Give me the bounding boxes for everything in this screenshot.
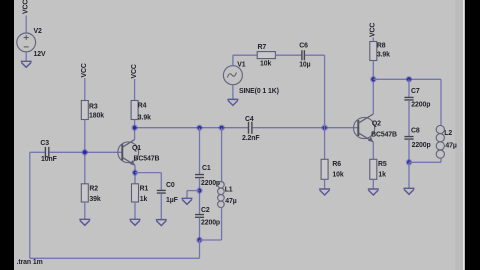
svg-text:L2: L2 — [444, 130, 452, 137]
wire C1 to C2 — [199, 178, 201, 215]
wire input loop down left side — [29, 152, 31, 258]
wire tank bottom to feedback rail — [199, 240, 201, 258]
net VCC flag at V2 — [23, 0, 30, 14]
svg-text:BC547B: BC547B — [134, 155, 160, 162]
wire Q2 emitter down — [372, 142, 374, 159]
svg-text:2200p: 2200p — [412, 142, 431, 149]
junction tank C1 node — [196, 125, 202, 131]
wire R5 to ground — [372, 179, 374, 189]
junction Q2 collector node — [370, 76, 377, 83]
wire R2 to ground — [84, 202, 86, 219]
voltage source V2 — [17, 33, 36, 52]
junction collector R4 node — [131, 125, 137, 131]
wire input left corner to C3 — [30, 151, 45, 153]
svg-text:2.2nF: 2.2nF — [242, 135, 260, 142]
junction tank L1 node — [218, 125, 224, 131]
wire C3 to Q1 base — [49, 151, 122, 153]
inductor L2 — [436, 125, 444, 158]
svg-text:1k: 1k — [378, 172, 386, 179]
svg-text:R3: R3 — [89, 104, 98, 111]
svg-text:R6: R6 — [332, 161, 341, 168]
ground at C1 C2 midpoint — [182, 198, 193, 204]
capacitor C8 — [404, 137, 413, 140]
wire rail to R6 — [324, 128, 326, 160]
svg-text:V1: V1 — [237, 61, 245, 68]
capacitor C0 — [157, 190, 166, 193]
svg-text:C1: C1 — [202, 165, 211, 172]
wire L1 top lead — [221, 128, 223, 182]
svg-text:39k: 39k — [89, 196, 100, 203]
wire C0 top lead — [160, 173, 162, 191]
svg-text:VCC: VCC — [370, 23, 377, 37]
junction C7 node — [406, 76, 413, 83]
wire VCC to R3 — [84, 78, 86, 101]
svg-text:C8: C8 — [411, 128, 420, 135]
svg-text:C3: C3 — [40, 140, 49, 147]
wire Q1 collector rail — [135, 127, 249, 129]
svg-text:R2: R2 — [89, 186, 98, 193]
wire C8 bottom lead — [408, 139, 410, 162]
wire R6 to ground — [324, 179, 326, 189]
transistor Q2 — [354, 114, 375, 142]
left black border bar — [0, 0, 14, 270]
svg-text:R5: R5 — [378, 161, 387, 168]
junction C1 C2 midpoint — [196, 187, 202, 193]
wire C2 bottom lead — [199, 218, 201, 241]
wire C4 to Q2 base — [252, 127, 358, 129]
wire R1 to ground — [134, 202, 136, 219]
svg-text:R1: R1 — [140, 186, 149, 193]
resistor R7 — [257, 52, 275, 59]
capacitor C6 — [302, 50, 305, 60]
ground below R6 — [319, 189, 330, 195]
svg-text:C4: C4 — [245, 116, 254, 123]
wire V1 bottom to ground — [232, 85, 234, 100]
wire output rail — [373, 78, 441, 80]
svg-text:Q2: Q2 — [372, 121, 381, 128]
capacitor C7 — [404, 97, 413, 100]
svg-text:C7: C7 — [411, 88, 420, 95]
wire R3 to R2 through base node — [84, 120, 86, 184]
svg-text:2200p: 2200p — [411, 102, 430, 109]
svg-text:SINE(0 1 1K): SINE(0 1 1K) — [239, 88, 279, 95]
wire C7 to C8 — [408, 100, 410, 136]
svg-text:C6: C6 — [299, 43, 308, 50]
svg-text:3.9k: 3.9k — [377, 51, 390, 58]
svg-text:VCC: VCC — [81, 63, 88, 77]
wire V1 to R7 — [233, 54, 257, 56]
capacitor C3 — [45, 147, 48, 158]
wire Q2 collector riser — [372, 79, 374, 114]
wire C7 top lead — [408, 79, 410, 97]
net VCC flag at R3 — [81, 63, 88, 77]
net VCC flag at R8 — [370, 23, 377, 37]
svg-text:10k: 10k — [260, 61, 271, 68]
svg-text:2200p: 2200p — [201, 220, 220, 227]
svg-text:VCC: VCC — [131, 64, 138, 78]
wire bottom feedback rail — [30, 257, 200, 259]
svg-text:47µ: 47µ — [445, 143, 456, 150]
wire VCC to R8 — [372, 38, 374, 42]
svg-text:1µF: 1µF — [166, 197, 178, 204]
junction tank bottom node — [196, 237, 203, 244]
capacitor C1 — [195, 175, 204, 178]
svg-text:R8: R8 — [377, 42, 386, 49]
transistor Q1 — [118, 140, 139, 166]
ground below output tank — [404, 188, 415, 194]
wire L2 bottom lead — [440, 158, 442, 162]
resistor R5 — [370, 159, 377, 179]
wire L2 to output node — [409, 161, 441, 163]
svg-text:12V: 12V — [34, 51, 46, 58]
svg-text:R4: R4 — [138, 103, 147, 110]
junction output tank bottom — [406, 159, 413, 166]
ground below R1 — [130, 219, 141, 225]
right window edge shading strip — [455, 0, 463, 270]
resistor R4 — [131, 101, 138, 120]
right black border bar — [465, 0, 480, 270]
wire Q1 emitter down — [134, 165, 136, 184]
wire C0 to ground — [160, 193, 162, 219]
wire R8 to collector node — [372, 61, 374, 80]
svg-text:C0: C0 — [166, 182, 175, 189]
right white edge highlight — [463, 0, 465, 270]
wire emitter to C0 — [135, 172, 161, 174]
junction base divider node — [82, 149, 89, 156]
svg-text:1k: 1k — [140, 196, 148, 203]
wire V1 top lead — [232, 55, 234, 65]
wire corner down to rail — [324, 55, 326, 128]
svg-text:.tran 1m: .tran 1m — [17, 259, 43, 266]
svg-text:C2: C2 — [201, 207, 210, 214]
svg-text:L1: L1 — [225, 186, 233, 193]
capacitor C4 — [249, 122, 252, 134]
wire midpoint ground stem — [186, 191, 188, 199]
ground below V2 — [21, 61, 32, 67]
inductor L1 — [218, 182, 225, 208]
svg-text:10k: 10k — [332, 172, 343, 179]
wire C1 top lead — [199, 128, 201, 175]
wire R4 to Q1 collector — [134, 120, 136, 140]
resistor R1 — [132, 184, 139, 202]
wire VCC to V2 top — [25, 16, 27, 34]
svg-text:R7: R7 — [258, 44, 267, 51]
junction V1 chain node — [321, 124, 328, 131]
voltage source V1 — [223, 66, 242, 85]
wire output ground stem — [408, 162, 410, 188]
svg-text:V2: V2 — [34, 28, 42, 35]
wire VCC to R4 — [134, 79, 136, 101]
wire L1 bottom to tank node — [200, 239, 222, 241]
wire R7 to C6 — [275, 54, 301, 56]
net VCC flag at R4 — [131, 64, 138, 78]
ground below R5 — [368, 189, 379, 195]
wire midpoint stub to ground — [187, 190, 200, 192]
ground below V1 — [227, 99, 238, 105]
resistor R8 — [370, 42, 377, 61]
ground below C0 — [156, 220, 167, 226]
svg-text:BC547B: BC547B — [371, 131, 397, 138]
wire V2 bottom to ground — [25, 52, 27, 62]
resistor R2 — [81, 184, 88, 202]
svg-text:47µ: 47µ — [225, 198, 236, 205]
wire L2 top lead — [440, 79, 442, 125]
svg-text:Q1: Q1 — [132, 145, 141, 152]
svg-text:10µ: 10µ — [299, 61, 310, 68]
resistor R6 — [321, 159, 328, 179]
svg-text:10nF: 10nF — [41, 156, 57, 163]
ground below R2 — [79, 219, 90, 225]
svg-text:VCC: VCC — [23, 0, 30, 14]
wire C6 to corner — [305, 54, 325, 56]
svg-text:3.9k: 3.9k — [138, 115, 151, 122]
wire L1 bottom lead — [221, 208, 223, 240]
resistor R3 — [81, 101, 88, 120]
capacitor C2 — [195, 215, 204, 218]
junction Q1 emitter node — [132, 169, 138, 175]
svg-text:180k: 180k — [89, 113, 104, 120]
